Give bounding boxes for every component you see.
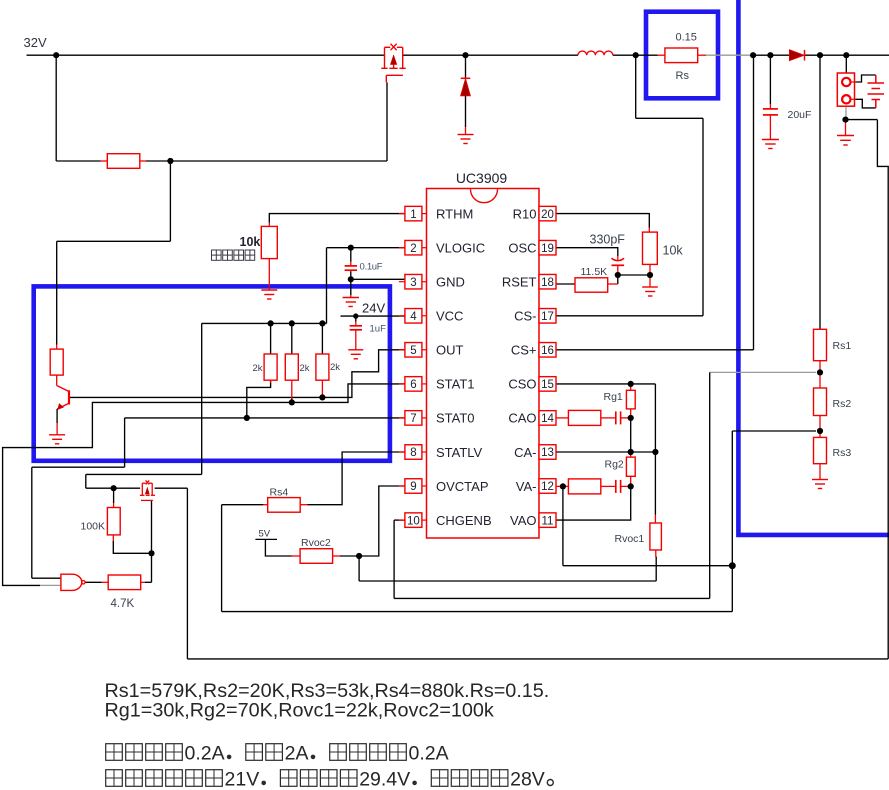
svg-text:21V: 21V xyxy=(225,769,260,790)
ground for D1 xyxy=(458,135,474,144)
svg-text:12: 12 xyxy=(541,481,554,493)
capacitor VA- feedback xyxy=(616,480,631,493)
wire switch node horizontal to CS- drop xyxy=(636,117,703,119)
ground for 20uF xyxy=(762,140,779,149)
diode D2 series xyxy=(790,50,805,61)
resistor 11.5K xyxy=(575,278,618,292)
pin 12 box xyxy=(539,479,556,494)
svg-text:7: 7 xyxy=(410,413,416,425)
svg-text:32V: 32V xyxy=(24,35,47,50)
wire pin11 VAO row xyxy=(556,486,631,520)
resistor R3 collector load (in blue box) xyxy=(50,345,63,386)
wire pin8 STATLV to Rs4 xyxy=(308,452,405,505)
svg-text:2k: 2k xyxy=(252,363,262,374)
text Chinese line 3 (charge currents) xyxy=(106,743,449,765)
junction dot switch node xyxy=(633,52,639,58)
wire Rvoc2 node right segment xyxy=(340,555,359,557)
wire battery return down jog xyxy=(877,120,888,659)
wire down to collector resistor R3 xyxy=(56,241,58,344)
svg-text:GND: GND xyxy=(436,275,465,290)
svg-text:10k: 10k xyxy=(240,235,261,249)
svg-text:4: 4 xyxy=(410,311,417,323)
svg-text:18: 18 xyxy=(541,277,554,289)
svg-text:CSO: CSO xyxy=(508,377,536,392)
junction dot Q2 gate node xyxy=(148,550,154,556)
wire x187 vertical to bottom rail xyxy=(186,488,188,659)
MOSFET Q1 (p-ch pass switch) xyxy=(381,44,405,83)
pin 8 box xyxy=(399,445,427,460)
wire pin5 OUT route to transistor base xyxy=(70,350,405,398)
junction dot Rvoc2 node xyxy=(356,553,362,559)
wire 2k top rail xyxy=(202,322,327,324)
svg-text:Rg1=30k,Rg2=70K,Rovc1=22k,Rovc: Rg1=30k,Rg2=70K,Rovc1=22k,Rovc2=100k xyxy=(105,700,494,722)
svg-text:CHGENB: CHGENB xyxy=(436,513,492,528)
ground for 1uF xyxy=(348,350,363,359)
pin 3 box xyxy=(399,274,427,289)
pin 4 box xyxy=(399,309,427,324)
wire pin17 CS- horizontal xyxy=(556,315,703,317)
svg-text:6: 6 xyxy=(410,379,416,391)
ground for Q3 emitter xyxy=(49,435,65,444)
pin 16 box xyxy=(539,343,556,358)
junction dot Rs2/Rs3 tap xyxy=(817,428,823,434)
pin 18 box xyxy=(539,274,556,289)
resistor 2k A xyxy=(264,323,277,380)
junction dot GND/0.1uF xyxy=(348,276,354,282)
wire bottom return rail xyxy=(187,658,888,660)
svg-text:UC3909: UC3909 xyxy=(456,170,508,186)
junction dot VA- pin xyxy=(560,483,566,489)
wire Rs2/Rs3 tap horizontal xyxy=(732,430,816,432)
svg-text:CS+: CS+ xyxy=(511,343,537,358)
wire CHGENB bottom horizontal xyxy=(394,597,710,599)
svg-text:15: 15 xyxy=(541,379,554,391)
wire STAT0 drop x124.6 xyxy=(124,418,126,467)
svg-text:0.2A: 0.2A xyxy=(409,743,449,765)
svg-text:11.5K: 11.5K xyxy=(581,266,608,278)
capacitor 20uF xyxy=(763,104,778,140)
svg-text:Rs3: Rs3 xyxy=(833,447,852,459)
ground at connector minus node xyxy=(837,122,854,145)
junction dot 20uF tap xyxy=(767,52,773,58)
thermistor 10k xyxy=(261,223,277,291)
wire pin3 GND row xyxy=(351,278,405,280)
wire 2k Rc bottom lead xyxy=(321,396,323,399)
svg-text:OVCTAP: OVCTAP xyxy=(436,479,489,494)
svg-text:CS-: CS- xyxy=(514,309,536,324)
op-amp U1 UC3909 body xyxy=(427,189,540,539)
highlight box around Rs (blue) xyxy=(646,12,718,99)
resistor Rs4 xyxy=(263,498,307,513)
wire gate row left segment xyxy=(56,160,100,162)
junction dot CA- x655 xyxy=(652,449,658,455)
resistor 2k A bottom lead red part xyxy=(270,380,272,383)
wire Rvoc2 node to Rvoc1 bottom xyxy=(359,580,656,582)
svg-text:RTHM: RTHM xyxy=(436,206,473,221)
junction dot 100K top xyxy=(111,485,117,491)
junction dot 2k rail C xyxy=(319,320,325,326)
wire Rvoc2 node down xyxy=(358,556,360,581)
junction dot 2k rail B xyxy=(289,320,295,326)
wire zig down to 100K rail xyxy=(85,474,87,488)
wire 4.7K right to gate vertical xyxy=(145,581,152,583)
junction dot connector tap xyxy=(843,52,849,58)
svg-text:2A: 2A xyxy=(285,743,309,765)
junction dot VA- net big xyxy=(729,562,736,569)
wire Q2 right to x187 xyxy=(155,487,188,489)
junction dot Ra / STAT0 net xyxy=(244,415,250,421)
wire Rvoc1 bottom vertical xyxy=(655,557,657,582)
junction dot battery minus node xyxy=(842,117,848,123)
junction dot Rg2 bottom / VAO xyxy=(628,483,634,489)
wire battery return right xyxy=(846,119,878,121)
wire Q2 gate vertical down to 4.7K xyxy=(151,500,153,582)
transistor Q3 NPN xyxy=(57,386,69,435)
svg-text:330pF: 330pF xyxy=(590,233,626,247)
wire connector to battery top bracket xyxy=(856,75,876,82)
svg-text:CAO: CAO xyxy=(508,411,536,426)
wire CAO node vertical to CA- xyxy=(630,418,632,452)
pin 13 box xyxy=(539,445,556,460)
pin 2 box xyxy=(399,240,427,255)
resistor Rvoc2 xyxy=(292,549,341,564)
pin 1 box xyxy=(399,206,427,221)
svg-text:Rs: Rs xyxy=(676,70,690,82)
connector J1 battery terminals xyxy=(837,73,855,106)
svg-text:10: 10 xyxy=(407,515,420,527)
wire rail x202 down to zig xyxy=(201,323,203,474)
ground for 0.1uF/GND pin xyxy=(343,295,359,307)
junction dot osc node right xyxy=(647,272,653,278)
wire 11.5K right vertical to osc node xyxy=(617,275,619,284)
wire Rs4 left vertical xyxy=(221,505,223,612)
wire NAND input B gray segment xyxy=(40,584,61,586)
wire CS- vertical to pin 17 xyxy=(702,118,704,315)
wire pin4 VCC 24V stub xyxy=(341,315,405,317)
junction dot CSO/Rg1 xyxy=(628,381,634,387)
junction dot diode D1 tap xyxy=(462,52,468,58)
ground for Rs3 xyxy=(812,480,828,489)
junction dot CA-/Rg2 xyxy=(628,449,634,455)
wire 100K top rail to MOSFET Q2 xyxy=(86,487,140,489)
wire pin20 R10 to 10k xyxy=(556,214,649,228)
svg-text:100K: 100K xyxy=(81,521,106,533)
wire input A vertical x31.8 xyxy=(31,467,33,578)
svg-text:Rvoc2: Rvoc2 xyxy=(301,537,331,549)
wire connector drop xyxy=(845,55,847,73)
svg-text:16: 16 xyxy=(541,345,554,357)
resistor Rvoc1 xyxy=(650,515,662,558)
capacitor CAO feedback xyxy=(616,411,631,424)
junction dot osc node left xyxy=(615,272,621,278)
svg-text:17: 17 xyxy=(541,311,554,323)
svg-text:Rvoc1: Rvoc1 xyxy=(615,533,645,545)
wire Rs output to diode D2 anode xyxy=(753,54,789,56)
svg-text:10k: 10k xyxy=(663,244,684,258)
wire pin9 OVCTAP route xyxy=(359,486,405,556)
svg-text:3: 3 xyxy=(410,277,416,289)
svg-text:2k: 2k xyxy=(300,363,310,374)
pin 10 box xyxy=(399,513,427,528)
svg-text:14: 14 xyxy=(541,413,554,425)
pin 7 box xyxy=(399,411,427,426)
svg-text:5: 5 xyxy=(410,345,416,357)
resistor Rg2 xyxy=(626,452,635,486)
inductor L1 xyxy=(578,51,613,55)
wire 2k Ra bottom jog to STAT0 xyxy=(247,380,271,418)
resistor 2k B xyxy=(285,323,298,398)
wire pin1 RTHM to thermistor xyxy=(269,214,405,223)
label 热敏电阻 (thermistor) xyxy=(212,250,255,260)
capacitor 330pF xyxy=(612,256,625,275)
svg-text:VCC: VCC xyxy=(436,309,463,324)
svg-text:1uF: 1uF xyxy=(370,324,387,335)
junction dot VCC/1uF xyxy=(353,313,358,318)
svg-text:20: 20 xyxy=(541,209,554,221)
pin 9 box xyxy=(399,479,427,494)
pin 17 box xyxy=(539,309,556,324)
wire Rs4 bottom horizontal xyxy=(222,611,733,613)
svg-text:2k: 2k xyxy=(330,362,340,373)
wire connector to battery bottom bracket xyxy=(856,99,876,108)
diode D1 freewheel xyxy=(461,55,471,134)
wire 1uF top lead xyxy=(355,316,357,321)
left blue highlight box around transistor/status network xyxy=(34,286,390,460)
resistor 100K xyxy=(107,503,120,541)
tall blue separator line with bottom arm xyxy=(738,0,889,535)
pin 5 box xyxy=(399,343,427,358)
wire 2k Rb bottom lead xyxy=(291,399,293,403)
wire 32V input stub xyxy=(27,54,57,56)
pin 15 box xyxy=(539,377,556,392)
capacitor 0.1uF xyxy=(345,262,357,272)
junction dot CAO/Rg1 xyxy=(628,415,634,421)
wire 20uF cap top drop xyxy=(769,55,771,104)
svg-text:STATLV: STATLV xyxy=(436,445,483,460)
resistor Rs2 xyxy=(814,372,827,431)
battery BT1 xyxy=(868,75,885,108)
wire pin10 stub xyxy=(394,519,405,521)
svg-text:13: 13 xyxy=(541,447,554,459)
resistor VA- series xyxy=(556,479,615,494)
wire zig horizontal y474 xyxy=(86,473,202,475)
power 5V bar xyxy=(255,538,277,540)
resistor R1 gate series (top left) xyxy=(101,154,147,169)
junction dot Rc bottom / OUT net xyxy=(319,394,325,400)
NAND gate U2 xyxy=(61,574,85,590)
wire pin12 VA- drop xyxy=(562,486,564,565)
svg-text:0.2A: 0.2A xyxy=(185,743,225,765)
wire pin19 OSC to 330pF xyxy=(556,248,618,256)
wire junction x170 down to blue box xyxy=(169,161,171,241)
wire inductor output into Rs box xyxy=(636,54,658,56)
wire switch node down xyxy=(635,55,637,118)
svg-text:OUT: OUT xyxy=(436,343,464,358)
svg-text:5V: 5V xyxy=(259,529,271,540)
svg-text:19: 19 xyxy=(541,243,554,255)
resistor Rg1 xyxy=(626,384,635,418)
wire NAND input A stub xyxy=(32,577,61,579)
svg-text:29.4V: 29.4V xyxy=(359,769,410,790)
svg-text:8: 8 xyxy=(410,447,416,459)
wire CHGENB vertical x709 xyxy=(709,372,711,598)
svg-text:0.1uF: 0.1uF xyxy=(360,262,383,273)
resistor Rs 0.15 (in blue box) xyxy=(658,48,706,63)
wire top rail from Q1 source to switch node xyxy=(403,54,578,56)
wire connector bottom to ground node (gray) xyxy=(845,106,847,117)
svg-text:STAT1: STAT1 xyxy=(436,377,475,392)
wire VA- net horizontal to pin12 drop xyxy=(563,565,732,567)
svg-text:VA-: VA- xyxy=(516,479,537,494)
pin 6 box xyxy=(399,377,427,392)
svg-text:28V: 28V xyxy=(510,769,545,790)
ground for osc node xyxy=(642,275,658,296)
wire pin6 STAT1 row xyxy=(3,384,405,586)
wire VLOGIC vertical to 2k rail xyxy=(326,248,328,324)
wire Rs right side (gray highlighted) xyxy=(706,54,753,56)
resistor Rs3 xyxy=(814,431,827,480)
wire Q1 gate vertical xyxy=(386,82,388,161)
svg-text:VLOGIC: VLOGIC xyxy=(436,241,485,256)
resistor 4.7K xyxy=(102,575,146,590)
wire pin10 CHGENB drop xyxy=(393,520,395,598)
wire pin13 CA- row xyxy=(556,451,655,453)
pin 20 box xyxy=(539,206,556,221)
wire pin2 VLOGIC row xyxy=(327,247,405,249)
wire pin15 CSO row xyxy=(556,383,655,385)
wire pin16 CS+ horizontal xyxy=(556,349,753,351)
wire D2 cathode to battery rail xyxy=(805,54,889,56)
svg-text:Rg1: Rg1 xyxy=(604,391,623,403)
svg-text:4.7K: 4.7K xyxy=(111,598,135,610)
junction dot Rb bottom / STAT1 net xyxy=(289,399,295,405)
text Chinese line 4 (voltages) xyxy=(106,769,554,790)
wire 100K bottom to gate node xyxy=(113,541,151,553)
svg-text:11: 11 xyxy=(542,515,554,527)
svg-text:Rs2: Rs2 xyxy=(833,398,852,410)
svg-text:24V: 24V xyxy=(362,301,385,316)
wire divider tap Rs1/Rs2 to CHGENB vertical (gray highlighted) xyxy=(710,371,816,373)
wire 100K top lead xyxy=(113,488,115,503)
wire NAND output xyxy=(85,581,101,583)
wire top rail from 32V node to MOSFET Q1 drain xyxy=(56,54,384,56)
pin 11 box xyxy=(539,513,556,528)
MOSFET Q2 (status drive) xyxy=(140,480,155,500)
junction dot VLOGIC/0.1uF xyxy=(348,245,354,251)
wire CSO vertical x655 down to Rvoc1 xyxy=(654,384,656,515)
wire Rs4 left lead row xyxy=(222,504,264,506)
svg-text:9: 9 xyxy=(410,481,416,493)
wire pin7 STAT0 row xyxy=(125,417,405,419)
wire 0.1uF bottom node to ground xyxy=(350,271,352,295)
junction dot gate row node xyxy=(167,158,173,164)
junction dot CS+ tap xyxy=(750,52,756,58)
wire switch node to inductor xyxy=(613,54,636,56)
wire horizontal y241 xyxy=(57,240,171,242)
svg-text:RSET: RSET xyxy=(502,275,537,290)
junction dot battery sense tap xyxy=(817,52,823,58)
svg-text:Rg2: Rg2 xyxy=(605,459,624,471)
svg-text:STAT0: STAT0 xyxy=(436,411,475,426)
wire 0.1uF top lead from pin2 row xyxy=(350,248,352,262)
wire gate row right segment to Q1 gate drop xyxy=(146,160,387,162)
wire pin18 RSET to 11.5K xyxy=(556,283,575,285)
svg-text:Rs4: Rs4 xyxy=(270,487,289,499)
junction dot 32V node xyxy=(53,52,59,58)
svg-text:CA-: CA- xyxy=(514,445,536,460)
wire 32V node down to gate resistor row xyxy=(55,55,57,161)
resistor 10k at R10 pin xyxy=(643,228,658,276)
pin 14 box xyxy=(539,411,556,426)
wire 5V to Rvoc2 left xyxy=(265,539,291,556)
svg-text:20uF: 20uF xyxy=(788,109,812,121)
wire VA- net vertical x732 xyxy=(731,431,733,612)
svg-text:VAO: VAO xyxy=(510,513,537,528)
svg-text:0.15: 0.15 xyxy=(676,32,697,44)
junction dot Rs1/Rs2 tap xyxy=(817,369,823,375)
svg-text:2: 2 xyxy=(410,243,416,255)
svg-text:1: 1 xyxy=(410,209,416,221)
svg-text:OSC: OSC xyxy=(508,241,536,256)
pin 19 box xyxy=(539,240,556,255)
svg-text:Rs1: Rs1 xyxy=(833,340,852,352)
svg-text:R10: R10 xyxy=(513,206,537,221)
resistor 2k C xyxy=(316,323,329,398)
ground for thermistor xyxy=(261,290,277,299)
resistor Rs1 xyxy=(814,329,827,372)
wire CS+ vertical from Rs output xyxy=(753,55,755,350)
wire osc node horizontal xyxy=(618,274,650,276)
resistor CAO series xyxy=(556,410,615,425)
capacitor 1uF xyxy=(350,322,362,350)
wire input A horizontal y467 xyxy=(32,466,125,468)
wire battery sense drop to Rs1 xyxy=(819,55,821,329)
junction dot 2k rail A xyxy=(268,320,274,326)
